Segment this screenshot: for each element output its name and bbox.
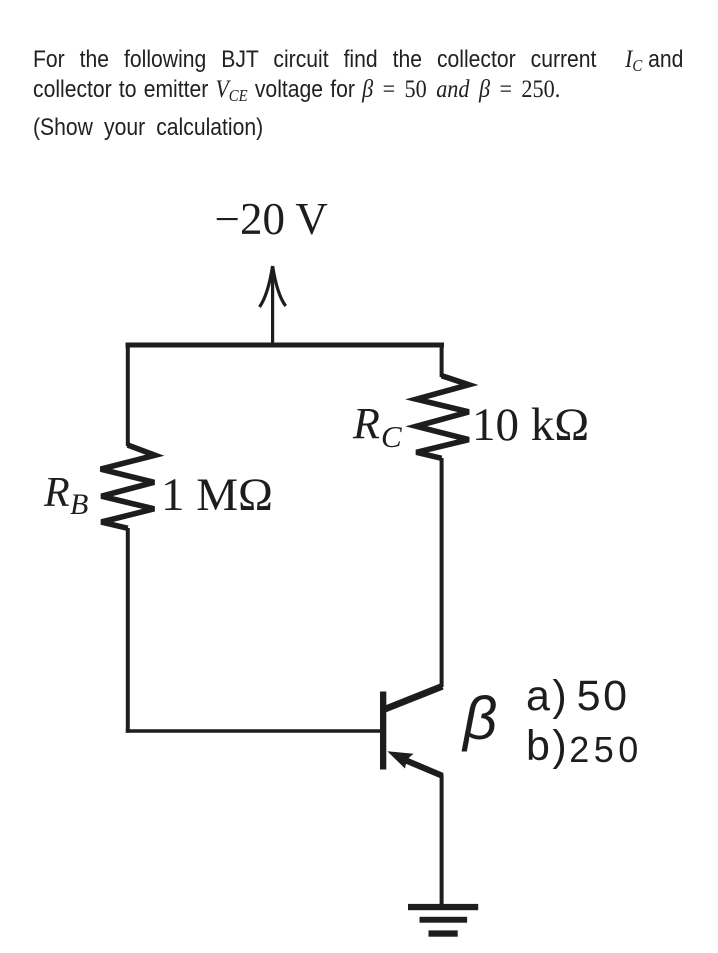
wire left branch lower bbox=[126, 528, 130, 733]
wire base bbox=[126, 729, 382, 732]
svg-text:β: β bbox=[461, 685, 497, 752]
wire emitter bbox=[440, 775, 444, 907]
wire collector bbox=[440, 458, 444, 687]
svg-text:C: C bbox=[381, 419, 402, 454]
ground bbox=[408, 904, 478, 937]
wire left branch upper bbox=[126, 343, 130, 446]
svg-text:−20 V: −20 V bbox=[215, 194, 328, 244]
problem text line 1 bbox=[33, 46, 683, 73]
svg-text:R: R bbox=[352, 399, 380, 448]
transistor Q1 bbox=[380, 686, 442, 776]
label b) 250 bbox=[526, 722, 643, 774]
svg-text:1 MΩ: 1 MΩ bbox=[161, 469, 273, 521]
label 1 MΩ bbox=[161, 469, 273, 521]
supply arrow bbox=[260, 266, 286, 345]
svg-text:R: R bbox=[43, 470, 70, 516]
problem text line 2 bbox=[33, 75, 560, 103]
wire right branch upper bbox=[440, 343, 444, 377]
problem text line 3 bbox=[33, 114, 263, 141]
resistor RB bbox=[101, 445, 155, 528]
svg-text:10 kΩ: 10 kΩ bbox=[472, 399, 589, 451]
label a) 50 bbox=[526, 672, 630, 720]
label beta bbox=[461, 685, 497, 752]
label RC bbox=[352, 399, 402, 454]
resistor RC bbox=[416, 376, 469, 459]
label RB bbox=[43, 470, 88, 521]
svg-text:B: B bbox=[70, 488, 88, 521]
supply label -20 V bbox=[215, 194, 328, 244]
wire top rail bbox=[126, 343, 445, 348]
label 10 kΩ bbox=[472, 399, 589, 451]
